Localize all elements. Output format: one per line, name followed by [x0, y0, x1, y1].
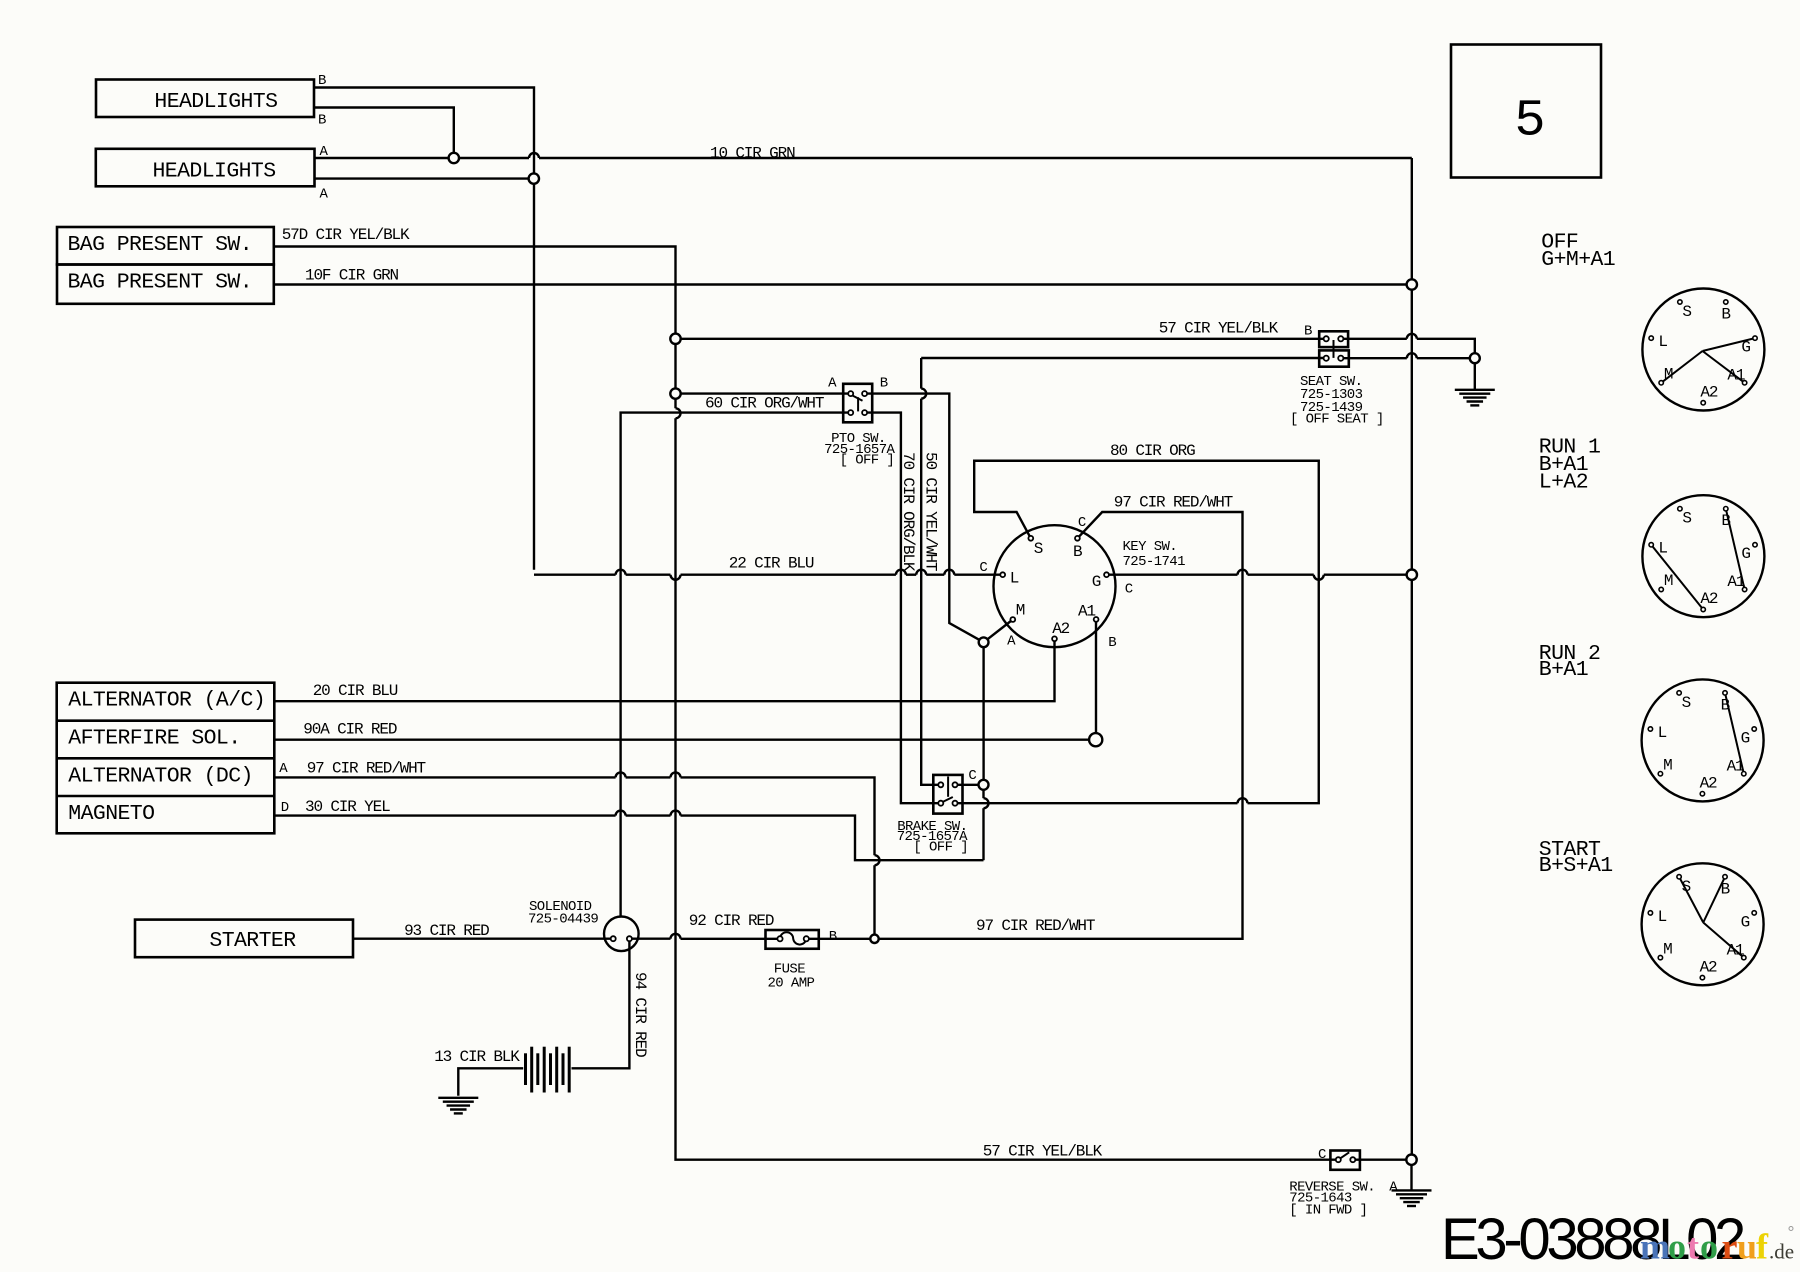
svg-text:13 CIR BLK: 13 CIR BLK: [434, 1048, 520, 1066]
PTO switch box 725-1657A: [843, 384, 872, 423]
svg-text:B+A1: B+A1: [1539, 658, 1588, 682]
key switch circle 725-1741: [994, 525, 1116, 647]
svg-text:A: A: [320, 144, 329, 160]
svg-text:MAGNETO: MAGNETO: [68, 802, 154, 826]
svg-text:M: M: [1664, 366, 1673, 384]
seat terminal upper-left: [1324, 336, 1329, 341]
svg-text:L+A2: L+A2: [1539, 471, 1588, 495]
solenoid terminal left: [611, 936, 616, 941]
brake switch lever: [942, 797, 953, 803]
wire 10 CIR GRN (headlights A top) with hop at x=534, to right bus corner: [315, 157, 530, 159]
svg-text:725-1741: 725-1741: [1123, 554, 1186, 570]
svg-text:97 CIR RED/WHT: 97 CIR RED/WHT: [1114, 493, 1233, 511]
svg-text:10 CIR GRN: 10 CIR GRN: [710, 145, 795, 163]
wire PTO bottom-left to corner x=620.6 down to solenoid coil: [621, 413, 851, 917]
svg-text:30 CIR YEL: 30 CIR YEL: [305, 798, 390, 816]
brake terminal bottom-right: [953, 801, 958, 806]
svg-text:A1: A1: [1078, 603, 1095, 621]
svg-text:S: S: [1682, 694, 1691, 712]
svg-text:B: B: [318, 73, 326, 89]
wire key switch A1 down to connector node J12: [1095, 619, 1097, 739]
page number box: [1451, 45, 1601, 178]
key position diagram RUN 2 (B+A1): [1642, 679, 1764, 801]
wire node J7 down to ground symbol: [1410, 1160, 1412, 1190]
svg-text:HEADLIGHTS: HEADLIGHTS: [153, 159, 276, 183]
wire 97 CIR RED/WHT alternator DC to fuse output node J10 (hops at 620.6, 675.5; self-hop at y=860.2): [274, 776, 615, 778]
svg-text:[ OFF SEAT ]: [ OFF SEAT ]: [1290, 412, 1384, 428]
battery symbol plates: [524, 1053, 527, 1085]
svg-text:5: 5: [1514, 92, 1545, 151]
svg-text:S: S: [1682, 510, 1691, 528]
wire PTO pin B to corner x=949.3 (50 CIR YEL/WHT drop): [865, 394, 984, 643]
bag present switch box S1: [57, 227, 274, 265]
wire 30 CIR YEL magneto to brake common node J9 (hops at 620.6, 675.5): [274, 814, 615, 816]
svg-text:A2: A2: [1700, 774, 1717, 792]
svg-text:ALTERNATOR (DC): ALTERNATOR (DC): [68, 765, 253, 789]
wire 60 CIR ORG/WHT from node J4 to PTO switch pin A: [676, 392, 851, 394]
wire headlights H1 pin B top to vertical bus x=534: [314, 88, 534, 174]
svg-text:BAG PRESENT SW.: BAG PRESENT SW.: [68, 233, 253, 257]
node J9 (brake common junction): [979, 780, 989, 790]
svg-text:B: B: [1721, 880, 1730, 898]
key position diagram OFF (G+M+A1): [1642, 289, 1764, 411]
svg-text:STARTER: STARTER: [209, 929, 296, 953]
seat terminal upper-right: [1338, 336, 1343, 341]
svg-text:L: L: [1010, 570, 1019, 588]
solenoid 725-04439 coil circle: [604, 917, 639, 952]
svg-text:A1: A1: [1727, 573, 1744, 591]
svg-text:G+M+A1: G+M+A1: [1541, 248, 1615, 272]
svg-text:20 AMP: 20 AMP: [768, 975, 815, 991]
node J8 (key M circuit junction): [979, 637, 989, 647]
svg-text:57 CIR YEL/BLK: 57 CIR YEL/BLK: [983, 1143, 1103, 1161]
wire segment node J2 down (joins vertical x=534): [533, 175, 535, 184]
svg-text:L: L: [1658, 333, 1667, 351]
fuse element curve: [780, 932, 806, 944]
svg-text:22 CIR BLU: 22 CIR BLU: [729, 555, 814, 573]
key position diagram START (B+S+A1): [1642, 863, 1764, 985]
wire node J9 down to 30 CIR YEL corner with self-hop at y=803.2: [982, 790, 984, 798]
node J10 (fuse output junction): [870, 935, 878, 943]
svg-text:50 CIR YEL/WHT: 50 CIR YEL/WHT: [922, 452, 940, 571]
headlight box H2 (lower HEADLIGHTS): [96, 149, 315, 187]
node J7 (reverse switch ground node): [1406, 1155, 1416, 1165]
wire 20 CIR BLU alternator A/C to key switch A2: [274, 639, 1054, 701]
svg-text:G: G: [1092, 573, 1101, 591]
svg-text:L: L: [1658, 724, 1667, 742]
svg-text:[ IN FWD ]: [ IN FWD ]: [1289, 1202, 1367, 1218]
svg-text:57 CIR YEL/BLK: 57 CIR YEL/BLK: [1159, 320, 1279, 338]
wire brake switch top-right to node J9: [955, 784, 984, 786]
wire 97 CIR RED/WHT key switch B circuit down to fuse output run: [875, 512, 1243, 939]
svg-text:B: B: [1721, 696, 1730, 714]
svg-text:A2: A2: [1700, 384, 1717, 402]
wire 10F CIR GRN from bag switch S2 to right bus node: [274, 283, 1412, 285]
svg-text:C: C: [979, 560, 987, 576]
key switch terminal G: [1104, 572, 1109, 577]
svg-text:B: B: [1721, 306, 1730, 324]
key switch terminal A2: [1052, 636, 1057, 641]
starter box: [135, 920, 353, 958]
node J1 (headlight B/A junction): [449, 153, 459, 163]
svg-text:94 CIR RED: 94 CIR RED: [631, 972, 649, 1057]
wire 93 CIR RED starter to solenoid: [353, 938, 613, 940]
svg-text:M: M: [1664, 572, 1673, 590]
wire 90A CIR RED afterfire solenoid to connector node J12: [274, 739, 1095, 741]
PTO terminal B-top: [862, 391, 867, 396]
svg-text:S: S: [1682, 303, 1691, 321]
wire brake switch bottom-right to 80 CIR ORG riser and key switch S terminal (hop at 1242.5): [955, 802, 1238, 804]
wire PTO bottom-right to corner x=900.9, 70 CIR ORG/BLK drop to brake switch bottom-left: [865, 413, 941, 804]
svg-text:ALTERNATOR (A/C): ALTERNATOR (A/C): [68, 689, 265, 713]
node J3 (57 CIR YEL/BLK tap): [670, 334, 680, 344]
svg-text:B: B: [1108, 635, 1116, 651]
svg-text:BAG PRESENT SW.: BAG PRESENT SW.: [68, 271, 253, 295]
svg-text:80 CIR ORG: 80 CIR ORG: [1110, 442, 1195, 460]
svg-text:B+S+A1: B+S+A1: [1539, 854, 1613, 878]
wire 57 CIR YEL/BLK from node J3 to seat switch: [676, 338, 1327, 340]
svg-text:[ OFF ]: [ OFF ]: [840, 452, 895, 468]
svg-text:G: G: [1741, 913, 1750, 931]
seat switch actuator bar: [1333, 340, 1335, 358]
node J11 (seat ground junction): [1470, 353, 1480, 363]
wire 22 CIR BLU from headlight bus to key switch L terminal (hops at 620.6,675.5,900.9,921.2,949.3): [534, 574, 616, 576]
seat terminal lower-right: [1338, 356, 1343, 361]
svg-text:A1: A1: [1727, 367, 1744, 385]
seat switch lower box: [1319, 350, 1349, 366]
wire headlights H2 pin A bottom to node J2: [315, 177, 529, 179]
reverse switch lever: [1340, 1152, 1350, 1159]
seat terminal lower-left: [1324, 356, 1329, 361]
ground symbol (battery/chassis): [438, 1097, 478, 1099]
node J4 (60 CIR ORG/WHT tap): [670, 388, 680, 398]
svg-text:B: B: [829, 929, 837, 945]
PTO switch lever: [852, 395, 863, 401]
svg-text:KEY SW.: KEY SW.: [1123, 539, 1178, 555]
svg-text:C: C: [1318, 1147, 1326, 1163]
key position diagram RUN 1 (B+A1, L+A2): [1642, 495, 1764, 617]
svg-text:S: S: [1682, 878, 1691, 896]
node J5 (10F CIR GRN joins right bus): [1407, 279, 1417, 289]
wire 57D CIR YEL/BLK from bag switch S1, down left bus x=675.5 to reverse switch, with self-hop at y=413.3: [274, 247, 676, 409]
svg-text:A2: A2: [1700, 958, 1717, 976]
svg-text:10F CIR GRN: 10F CIR GRN: [305, 267, 399, 285]
svg-text:G: G: [1741, 545, 1750, 563]
svg-text:97 CIR RED/WHT: 97 CIR RED/WHT: [307, 759, 426, 777]
svg-text:57D CIR YEL/BLK: 57D CIR YEL/BLK: [282, 226, 410, 244]
svg-text:L: L: [1658, 908, 1667, 926]
node J2 (headlight A junction on bus): [529, 173, 539, 183]
svg-text:97 CIR RED/WHT: 97 CIR RED/WHT: [976, 917, 1095, 935]
reverse terminal left: [1336, 1157, 1341, 1162]
seat switch upper box: [1319, 331, 1348, 347]
svg-text:D: D: [281, 800, 289, 816]
brake terminal top-left: [938, 782, 943, 787]
svg-text:M: M: [1016, 602, 1025, 620]
PTO terminal bottom-left: [848, 410, 853, 415]
key switch terminal M: [1010, 617, 1015, 622]
bag present switch box S2: [57, 265, 274, 304]
alternator/magneto connector stack box: [57, 683, 275, 834]
key switch terminal A1: [1094, 617, 1099, 622]
svg-text:B: B: [880, 375, 888, 391]
svg-text:70 CIR ORG/BLK: 70 CIR ORG/BLK: [899, 452, 917, 572]
svg-text:[ OFF ]: [ OFF ]: [913, 840, 968, 856]
node J12 (afterfire/A1 connector): [1089, 733, 1102, 746]
svg-text:92 CIR RED: 92 CIR RED: [689, 912, 774, 930]
brake switch box 725-1657A: [933, 775, 962, 814]
brake terminal bottom-left: [938, 801, 943, 806]
svg-text:A: A: [1389, 1179, 1398, 1195]
svg-text:A: A: [320, 187, 329, 203]
svg-text:B: B: [1304, 324, 1312, 340]
svg-text:A: A: [1007, 633, 1016, 649]
wire node J8 diagonal to key switch M terminal: [984, 620, 1013, 643]
wire 92 CIR RED solenoid to fuse (hop at 675.5): [629, 938, 670, 940]
svg-text:A: A: [279, 761, 288, 777]
svg-text:L: L: [1658, 540, 1667, 558]
wire node J8 down to node J9 (key M circuit): [982, 642, 984, 785]
svg-text:G: G: [1741, 729, 1750, 747]
svg-text:A1: A1: [1727, 757, 1744, 775]
node J6 (22 CIR BLU joins right bus): [1407, 570, 1417, 580]
svg-text:60 CIR ORG/WHT: 60 CIR ORG/WHT: [705, 395, 824, 413]
svg-text:20 CIR BLU: 20 CIR BLU: [313, 682, 398, 700]
wire reverse switch to ground node J7: [1353, 1158, 1412, 1160]
svg-text:HEADLIGHTS: HEADLIGHTS: [154, 90, 277, 114]
svg-text:C: C: [1078, 515, 1086, 531]
svg-text:A2: A2: [1700, 590, 1717, 608]
svg-text:AFTERFIRE SOL.: AFTERFIRE SOL.: [68, 726, 240, 750]
wire fuse output to node J10: [806, 938, 874, 940]
wire right vertical bus x=1411.8 (10 CIR GRN down to reverse switch node): [1411, 158, 1413, 1160]
wire seat switch lower right to ground node J11 with hop over right bus: [1341, 357, 1407, 359]
svg-text:B: B: [1073, 543, 1082, 561]
svg-text:S: S: [1034, 540, 1043, 558]
svg-text:C: C: [968, 768, 976, 784]
svg-text:93 CIR RED: 93 CIR RED: [404, 922, 489, 940]
svg-text:B: B: [1721, 512, 1730, 530]
wire headlights H1 pin B bottom down to node J1: [314, 108, 454, 153]
svg-text:M: M: [1663, 940, 1672, 958]
wire node J11 down to seat ground symbol: [1474, 358, 1476, 389]
ground symbol (seat switch): [1455, 389, 1495, 391]
svg-text:.de: .de: [1769, 1240, 1794, 1264]
wire lower seat feed from corner x=921.2 (with self-hop at y=393.6) down to brake switch top-left: [921, 357, 1326, 359]
svg-text:A1: A1: [1727, 941, 1744, 959]
wire 13 CIR BLK battery negative to chassis ground: [458, 1068, 523, 1096]
PTO terminal bottom-right: [862, 410, 867, 415]
svg-text:725-04439: 725-04439: [528, 912, 598, 928]
headlight box H1 (upper HEADLIGHTS): [96, 80, 314, 118]
fuse terminal right: [804, 936, 809, 941]
svg-text:A2: A2: [1052, 620, 1069, 638]
svg-text:G: G: [1741, 339, 1750, 357]
key switch terminal B: [1075, 536, 1080, 541]
svg-text:M: M: [1663, 756, 1672, 774]
brake terminal top-right: [953, 782, 958, 787]
svg-text:B: B: [318, 113, 326, 129]
reverse switch box 725-1643: [1330, 1151, 1360, 1170]
ground symbol (reverse switch): [1392, 1189, 1432, 1191]
fuse terminal left: [777, 936, 782, 941]
wire key switch G terminal to right bus node J6 (hops at 1242.5, 1318.75): [1107, 574, 1238, 576]
svg-text:90A CIR RED: 90A CIR RED: [303, 720, 397, 738]
key switch terminal S: [1028, 536, 1033, 541]
key switch terminal L: [1000, 572, 1005, 577]
fuse box 20 AMP: [766, 930, 819, 949]
svg-text:motoruf: motoruf: [1640, 1227, 1769, 1267]
wire seat switch upper right to ground corner with hop over right bus: [1341, 338, 1407, 340]
reverse terminal right: [1350, 1157, 1355, 1162]
svg-text:A: A: [828, 375, 837, 391]
wire 94 CIR RED solenoid to battery positive: [572, 939, 630, 1069]
svg-text:C: C: [1125, 581, 1133, 597]
PTO terminal A-top: [848, 391, 853, 396]
solenoid terminal right: [627, 936, 632, 941]
